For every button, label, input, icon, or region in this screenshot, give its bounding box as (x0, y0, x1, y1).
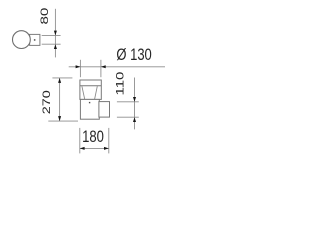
top view: bracket center dot (34, 39, 36, 41)
front view: head cap (80, 80, 101, 99)
dim 180 arrow right (104, 147, 109, 150)
dim 270 arrow down (58, 116, 61, 121)
front view: cap bottom line (80, 85, 101, 87)
top view: wall bracket square (30, 34, 40, 45)
dim 270 extension line top (52, 77, 72, 79)
dim 130 arrow right (76, 65, 81, 68)
dim 110 extension line bottom (117, 116, 139, 118)
dim 80 dimension line (54, 9, 56, 58)
dim 110 extension line top (117, 101, 139, 103)
dim 180 extension line right (108, 128, 110, 153)
dim 130 extension line left (79, 60, 81, 77)
front view: junction box (99, 102, 110, 118)
svg-text:80: 80 (39, 8, 51, 25)
dim 110 arrow down (133, 97, 136, 102)
dim 110 dimension line (134, 78, 136, 130)
dim 180 arrow left (80, 147, 85, 150)
dim 130 arrow left (101, 65, 106, 68)
svg-text:180: 180 (82, 128, 104, 146)
dim 110 arrow up (133, 117, 136, 122)
dim 180 extension line left (79, 128, 81, 153)
svg-text:270: 270 (41, 90, 53, 114)
dim 130 extension line right (100, 60, 102, 77)
svg-text:110: 110 (115, 72, 127, 96)
dim 80 extension line top (42, 34, 61, 36)
dim 80 arrow up (54, 44, 57, 49)
dim 270 arrow up (58, 78, 61, 83)
top view: sphere circle (13, 31, 31, 49)
front view: body dot (89, 102, 90, 103)
dim 130 dimension line (69, 66, 165, 68)
dim 80 arrow down (54, 31, 57, 36)
front view: reflector cone left (82, 86, 85, 99)
front view: reflector cone right (95, 86, 98, 99)
front view: body (80, 99, 99, 119)
dim 180 dimension line (80, 147, 109, 149)
dim 270 dimension line (59, 78, 61, 121)
svg-text:Ø 130: Ø 130 (116, 46, 151, 64)
dim 270 extension line bottom (48, 120, 78, 122)
dim 80 extension line bottom (42, 43, 61, 45)
